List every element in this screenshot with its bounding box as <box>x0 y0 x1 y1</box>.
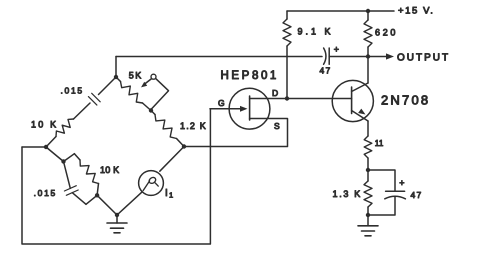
wire collector to output node <box>367 57 369 84</box>
svg-text:+15 V.: +15 V. <box>398 6 434 17</box>
svg-text:620: 620 <box>375 28 398 38</box>
svg-text:10 K: 10 K <box>100 165 119 175</box>
pot wiper terminal circle <box>151 74 156 79</box>
node output/collector junction <box>366 54 370 58</box>
FET channel bar <box>249 96 251 120</box>
wire split to top corner <box>64 154 75 162</box>
wire 1.2K lead <box>151 111 155 115</box>
node drain/base/9.1K junction <box>285 96 289 100</box>
svg-text:1.3 K: 1.3 K <box>332 189 362 199</box>
resistor R 11 body <box>364 136 372 158</box>
node bridge bottom vertex <box>115 213 119 217</box>
resistor R 620 body <box>364 20 372 47</box>
svg-text:+: + <box>334 45 339 55</box>
resistor R 10K (parallel) body <box>80 160 99 184</box>
emitter arrowhead <box>358 109 365 115</box>
node pot lower junction <box>149 108 153 112</box>
capacitor C .015 (series) plates <box>88 93 100 105</box>
node top-rail/620 junction <box>366 9 370 13</box>
transistor Q1 2N708 circle <box>332 80 373 121</box>
svg-text:OUTPUT: OUTPUT <box>397 53 450 64</box>
wire 1.2K to right vertex <box>177 139 185 147</box>
transistor emitter stroke <box>352 111 368 122</box>
ground (emitter network) <box>367 215 369 226</box>
node parallel-RC rejoin <box>95 193 99 197</box>
wire bridge top to feedback line <box>115 57 117 78</box>
resistor R 5K body <box>121 82 143 104</box>
wire top-left arm upper <box>99 77 117 95</box>
svg-text:G: G <box>218 98 225 108</box>
node bottom junction <box>366 213 370 217</box>
wire 620 top lead <box>367 11 369 20</box>
svg-text:HEP801: HEP801 <box>221 70 279 82</box>
node emitter network junction <box>366 168 370 172</box>
wire bypass cap branch bottom <box>368 197 395 216</box>
pot wiper arrow <box>145 79 152 84</box>
wire feedback line left of C 47 <box>116 56 322 58</box>
wire gate lead <box>210 108 242 110</box>
wire top-left arm lower <box>46 137 56 148</box>
node bridge right vertex <box>182 144 186 148</box>
wire lamp to bottom vertex <box>117 192 142 215</box>
wire drain lead <box>250 98 287 100</box>
svg-text:.015: .015 <box>61 85 84 95</box>
transistor collector stroke <box>352 83 368 92</box>
wire left vertex stub <box>22 146 46 148</box>
svg-text:D: D <box>272 88 278 98</box>
svg-text:5K: 5K <box>129 71 143 81</box>
wire to 1.3K <box>367 170 369 181</box>
wire pot loop <box>151 78 169 110</box>
svg-text:11: 11 <box>375 139 384 148</box>
wire 620 bottom lead <box>367 47 369 57</box>
lamp filament <box>143 181 149 191</box>
svg-text:47: 47 <box>411 190 423 200</box>
node bridge left vertex <box>44 145 48 149</box>
svg-text:S: S <box>274 121 280 131</box>
wire cap to bottom corner <box>72 193 86 205</box>
gate arrowhead <box>240 106 248 112</box>
wire top-left arm middle <box>74 103 91 119</box>
wire 1.3K bottom <box>367 207 369 215</box>
capacitor C 47uF plates <box>324 48 326 64</box>
wire 9.1K bottom lead to drain line <box>286 46 288 99</box>
wire 9.1K top lead <box>286 11 288 19</box>
wire outer loop left/bottom/right <box>22 109 210 244</box>
wire left vertex to split node <box>46 147 64 162</box>
svg-text:47: 47 <box>320 66 332 76</box>
transistor base bar <box>351 87 353 114</box>
svg-text:+: + <box>399 178 404 188</box>
ground (bridge) <box>116 215 118 223</box>
resistor R 9.1K body <box>283 19 291 46</box>
svg-text:I: I <box>165 188 168 199</box>
wire +15V top rail <box>287 10 394 12</box>
svg-text:10 K: 10 K <box>31 120 58 130</box>
wire bypass cap branch top <box>368 170 395 191</box>
svg-text:2N708: 2N708 <box>381 93 430 108</box>
wire 5K to J1 <box>143 103 152 111</box>
svg-text:1.2 K: 1.2 K <box>180 121 207 131</box>
wire source lead <box>184 119 288 147</box>
resistor R 10K (series) body <box>56 119 74 137</box>
wire bottom corner to rejoin node <box>86 195 97 204</box>
wire 10K lead upper <box>74 154 80 160</box>
wire base lead (drain line) <box>287 98 352 100</box>
node parallel-RC split <box>61 159 65 163</box>
arrow output <box>386 53 394 59</box>
wire rejoin to bottom vertex <box>97 195 117 215</box>
svg-text:.015: .015 <box>34 188 57 198</box>
wire right vertex to lamp <box>160 147 184 172</box>
op-amp FET U1 HEP801 circle <box>229 88 270 129</box>
svg-text:1: 1 <box>169 191 173 200</box>
lamp I1 circle <box>139 171 164 196</box>
svg-text:9.1 K: 9.1 K <box>298 27 334 37</box>
wire output line right of C 47 <box>329 56 386 58</box>
wire 5K lead <box>116 77 121 82</box>
wire emitter lead <box>367 121 369 136</box>
capacitor C .015 (parallel) plates <box>64 186 78 196</box>
resistor R 1.3K body <box>364 181 372 207</box>
node bridge top vertex <box>114 75 118 79</box>
wire split to cap <box>64 162 71 189</box>
capacitor C 47uF bypass plates <box>386 190 405 192</box>
resistor R 1.2K body <box>155 115 177 139</box>
wire 11 to junction <box>367 158 369 170</box>
wire 10K to rejoin node <box>97 184 98 196</box>
